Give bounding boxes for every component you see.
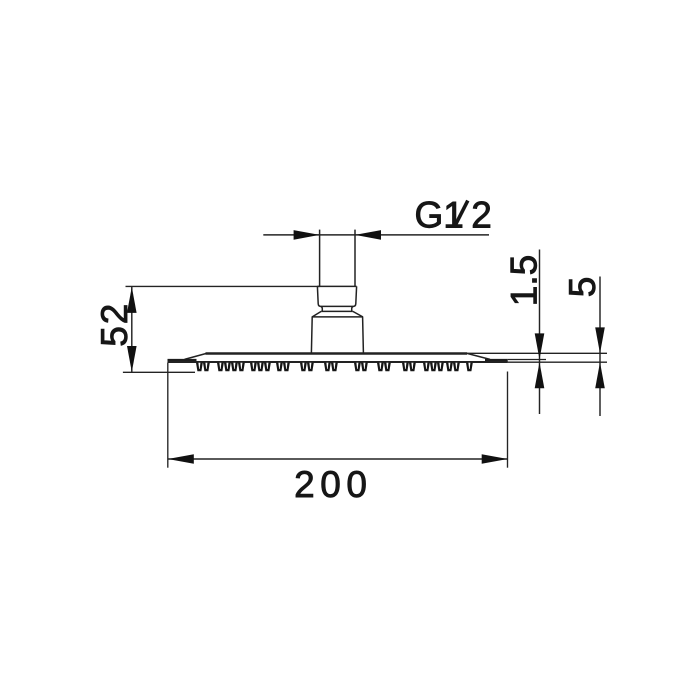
nozzle N7 xyxy=(250,363,257,371)
dim 52 top extension line xyxy=(126,285,320,287)
arrowhead dim 5 upper xyxy=(595,327,605,353)
nozzle N24 xyxy=(437,363,444,371)
plate right bevel xyxy=(467,353,490,359)
lower base box on plate xyxy=(311,317,363,353)
nozzle N25 xyxy=(446,363,453,371)
nozzle N14 xyxy=(324,363,331,371)
nozzle N4 xyxy=(224,363,231,371)
svg-text:52: 52 xyxy=(94,302,135,347)
dim 200 right extension line xyxy=(507,372,509,468)
dim 5 dimension line xyxy=(599,277,601,417)
collar waist between nut and base xyxy=(321,306,353,311)
svg-text:2: 2 xyxy=(471,194,492,235)
nozzle N9 xyxy=(264,363,271,371)
arrowhead dim 200 right xyxy=(482,454,508,464)
nozzle N27 xyxy=(466,363,473,371)
svg-text:200: 200 xyxy=(294,464,372,505)
plate bottom face line xyxy=(168,361,508,363)
nozzle N22 xyxy=(423,363,430,371)
plate left lip solid band xyxy=(168,359,197,363)
shower plate top surface thick line xyxy=(206,352,468,355)
arrowhead dim 200 left xyxy=(168,454,194,464)
arrowhead dim G1/2 left xyxy=(294,230,320,240)
nozzle N8 xyxy=(257,363,264,371)
nozzle N6 xyxy=(238,363,245,371)
plate bottom extension line to 1.5 and 5 dimensions xyxy=(508,361,607,363)
arrowhead dim 1.5 upper xyxy=(535,333,545,359)
plate right lip top extension line to 1.5 dimension xyxy=(508,359,546,361)
nozzle N23 xyxy=(430,363,437,371)
dim 1.5 dimension line xyxy=(539,250,541,415)
svg-text:5: 5 xyxy=(562,277,603,298)
inlet pipe G1/2 thread right edge xyxy=(354,230,356,287)
arrowhead dim 5 lower xyxy=(595,362,605,388)
dim 200 dimension line xyxy=(168,458,508,460)
nozzle N20 xyxy=(402,363,409,371)
inlet pipe G1/2 thread left edge xyxy=(319,230,321,287)
nozzle N1 xyxy=(196,363,203,371)
dim 52 bottom extension line xyxy=(123,371,195,373)
nozzle N3 xyxy=(217,363,224,371)
nozzle N13 xyxy=(307,363,314,371)
nozzle N15 xyxy=(331,363,338,371)
nozzle N19 xyxy=(384,363,391,371)
dim 200 left extension line xyxy=(167,363,169,468)
nozzle N5 xyxy=(231,363,238,371)
nozzle N12 xyxy=(300,363,307,371)
dim 52 dimension line xyxy=(131,286,133,372)
arrowhead dim 52 bottom xyxy=(127,346,137,372)
nozzle N11 xyxy=(283,363,290,371)
nozzle N16 xyxy=(354,363,361,371)
plate top extension line to 5 dimension xyxy=(467,352,607,354)
arrowhead dim 1.5 lower xyxy=(535,362,545,388)
plate left bevel xyxy=(185,353,207,359)
nozzle N21 xyxy=(409,363,416,371)
nozzle N2 xyxy=(203,363,210,371)
arrowhead dim G1/2 right xyxy=(355,230,381,240)
dim G1/2 dimension line xyxy=(263,234,489,236)
upper nut / connector box outline xyxy=(317,286,356,306)
svg-text:G1: G1 xyxy=(415,194,464,235)
nozzle N26 xyxy=(453,363,460,371)
svg-text:1.5: 1.5 xyxy=(503,255,544,306)
nozzle N17 xyxy=(361,363,368,371)
arrowhead dim 52 top xyxy=(127,287,137,313)
nozzle N10 xyxy=(276,363,283,371)
plate right lip solid band xyxy=(485,359,508,363)
collar flare skirt xyxy=(312,311,363,317)
nozzle N18 xyxy=(377,363,384,371)
label G1/2 slash glyph xyxy=(454,201,468,228)
